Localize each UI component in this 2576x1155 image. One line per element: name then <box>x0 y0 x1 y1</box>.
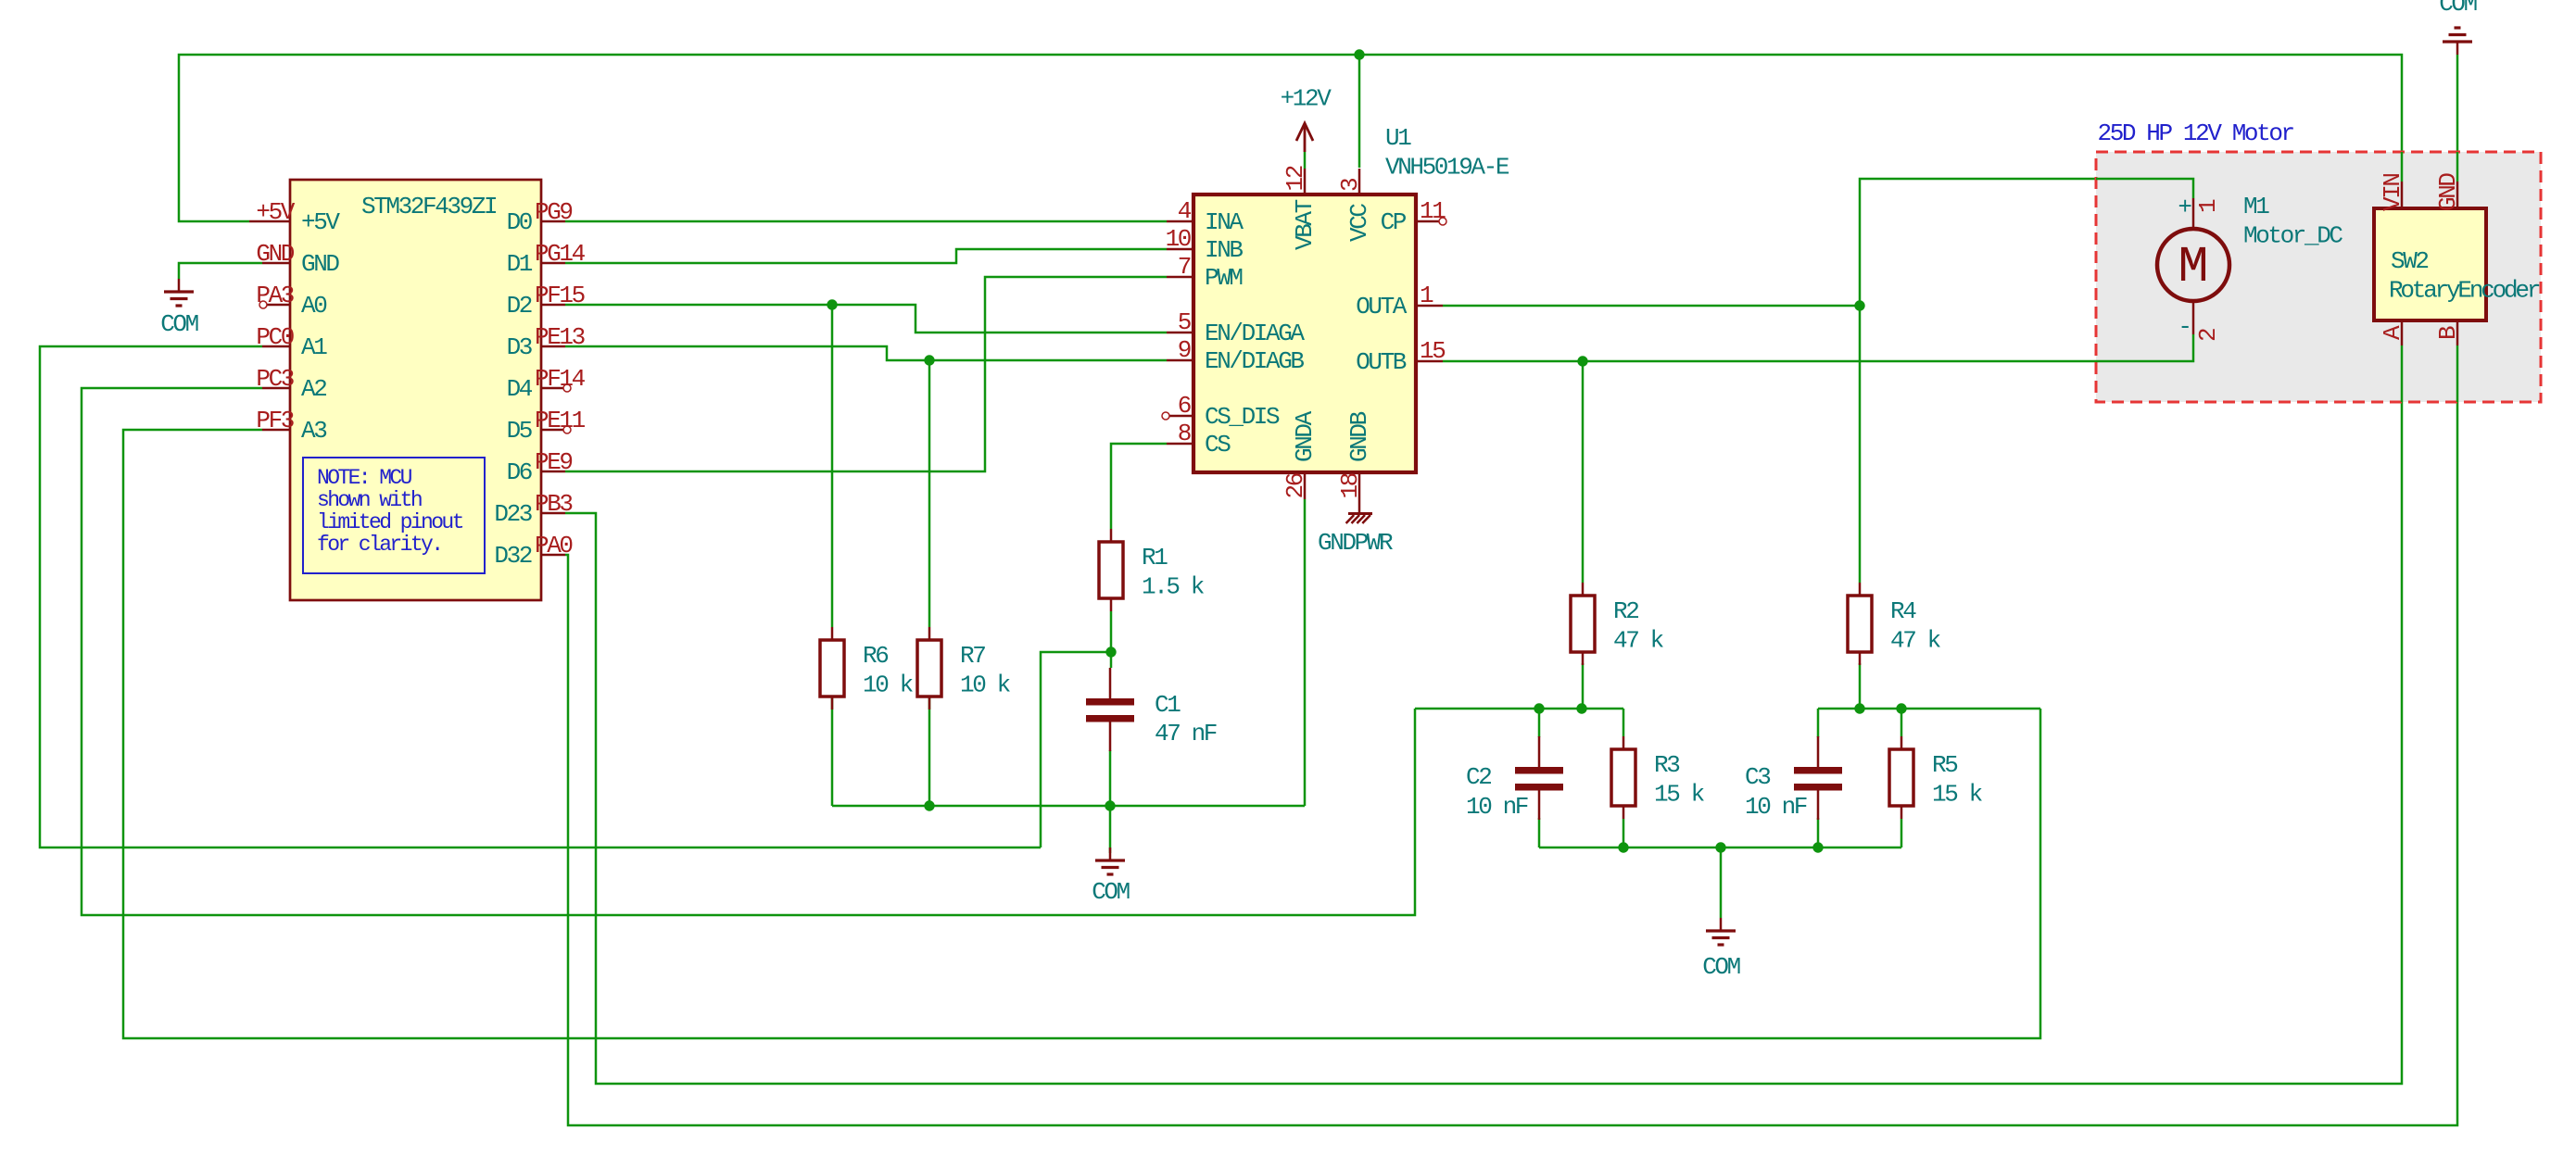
wire U1 VCC drop from +5V rail <box>1358 55 1361 168</box>
svg-text:8: 8 <box>1178 420 1191 447</box>
junction R7 / COM bus <box>924 800 934 810</box>
svg-text:A0: A0 <box>301 292 326 320</box>
svg-text:GND: GND <box>2434 173 2462 211</box>
U1 pin 7 PWM <box>1167 276 1193 279</box>
svg-text:C1: C1 <box>1155 691 1181 719</box>
svg-text:A3: A3 <box>301 417 326 445</box>
capacitor C2 10 nF <box>1515 767 1563 774</box>
U1 pin 15 OUTB <box>1416 360 1443 363</box>
SW2 pin B <box>2456 320 2459 345</box>
MCU pin D0 <box>540 220 565 223</box>
svg-text:STM32F439ZI: STM32F439ZI <box>361 193 497 220</box>
svg-text:R6: R6 <box>863 642 888 670</box>
svg-text:D3: D3 <box>507 333 532 361</box>
wire SW2 B to D32/PA0 <box>565 345 2457 1125</box>
MCU pin A3 <box>262 429 290 432</box>
wire R6 bottom to COM bus <box>831 697 834 806</box>
wire D2/PF15 to U1 EN/DIAGA <box>565 305 1167 333</box>
MCU STM32F439ZI body <box>290 180 541 600</box>
MCU pin D3 <box>540 345 565 348</box>
wire COM return under dividers <box>1539 847 1901 849</box>
svg-text:PA3: PA3 <box>256 282 293 309</box>
svg-text:COM: COM <box>2439 0 2476 18</box>
svg-text:GND: GND <box>301 250 339 278</box>
junction COM stub <box>1715 842 1725 852</box>
junction OUTA / R4 riser <box>1854 300 1864 310</box>
MCU pin D32 <box>540 554 565 557</box>
junction D2 net / R6 <box>827 299 837 309</box>
SW2 pin A <box>2401 320 2404 345</box>
svg-text:D5: D5 <box>507 417 532 445</box>
svg-text:EN/DIAGA: EN/DIAGA <box>1205 320 1305 347</box>
MCU pin A1 <box>262 345 290 348</box>
MCU pin D1 <box>540 262 565 265</box>
resistor R5 15 k <box>1889 749 1913 806</box>
op-amp U1 VNH5019A-E body <box>1193 195 1416 472</box>
svg-text:9: 9 <box>1178 336 1191 364</box>
svg-text:NOTE: MCU: NOTE: MCU <box>317 466 412 490</box>
svg-text:OUTB: OUTB <box>1356 348 1407 376</box>
junction D3 net / R7 <box>924 355 934 365</box>
wire R5 bottom <box>1900 819 1903 847</box>
junction +5V rail / VCC <box>1354 49 1364 59</box>
svg-text:1: 1 <box>1420 282 1433 309</box>
U1 pin 10 INB <box>1167 248 1193 251</box>
svg-text:47 k: 47 k <box>1890 627 1941 655</box>
svg-text:M1: M1 <box>2243 193 2269 220</box>
svg-text:CS_DIS: CS_DIS <box>1205 403 1280 431</box>
svg-text:VIN: VIN <box>2379 174 2406 211</box>
wire +5V rail from MCU +5V pin up across top to SW2 VIN <box>179 55 2402 221</box>
svg-text:D23: D23 <box>494 500 531 528</box>
wire R2 riser from OUTB <box>1582 361 1585 583</box>
wire U1 GNDA to COM bus <box>1304 499 1307 806</box>
MCU pin +5V <box>249 220 290 223</box>
resistor R6 10 k <box>820 640 844 697</box>
svg-text:PC3: PC3 <box>256 365 293 393</box>
wire OUTA up-over to motor + <box>1860 179 2193 306</box>
svg-text:VBAT: VBAT <box>1291 199 1319 250</box>
svg-text:PA0: PA0 <box>535 532 572 559</box>
svg-text:GNDPWR: GNDPWR <box>1318 529 1393 557</box>
svg-text:A1: A1 <box>301 333 327 361</box>
capacitor C3 10 nF <box>1794 767 1842 774</box>
svg-text:SW2: SW2 <box>2391 247 2428 275</box>
wire D0/PG9 to U1 INA <box>565 220 1167 223</box>
svg-text:PC0: PC0 <box>256 323 293 351</box>
resistor R2 47 k <box>1571 596 1595 652</box>
wire C3 bottom stub <box>1817 818 1820 847</box>
motor M1 Motor_DC <box>2157 229 2229 301</box>
svg-text:B: B <box>2434 326 2462 340</box>
svg-text:R7: R7 <box>960 642 985 670</box>
SW2 pin VIN <box>2401 182 2404 208</box>
MCU pin D5 <box>540 429 563 432</box>
wire R4 riser from OUTA <box>1859 306 1862 583</box>
svg-text:D4: D4 <box>507 375 533 403</box>
wire R1 bottom to node <box>1110 611 1113 668</box>
wire VBAT stub <box>1304 152 1307 169</box>
wire SW2 VIN inside group <box>2401 152 2404 182</box>
wire U1 OUTB to motor - <box>1443 334 2193 361</box>
svg-text:M: M <box>2178 238 2208 296</box>
svg-text:PF14: PF14 <box>535 365 586 393</box>
svg-text:18: 18 <box>1336 473 1364 498</box>
svg-text:1: 1 <box>2194 199 2222 213</box>
svg-text:R5: R5 <box>1932 751 1957 779</box>
svg-text:Motor_DC: Motor_DC <box>2243 222 2342 250</box>
junction C3 bottom <box>1812 842 1823 852</box>
svg-text:12: 12 <box>1282 166 1309 191</box>
wire SW2 B inside group <box>2456 345 2459 402</box>
ground COM at MCU <box>178 279 181 292</box>
svg-text:47 k: 47 k <box>1613 627 1664 655</box>
U1 pin 18 GNDB <box>1358 472 1361 513</box>
wire motor - inside group <box>2096 334 2193 361</box>
resistor R4 47 k <box>1848 596 1872 652</box>
svg-text:R1: R1 <box>1142 544 1168 571</box>
svg-text:+: + <box>2178 194 2191 221</box>
U1 pin 26 GNDA <box>1304 472 1307 499</box>
svg-text:1.5 k: 1.5 k <box>1142 573 1205 601</box>
MCU pin D2 <box>540 304 565 307</box>
svg-text:PE11: PE11 <box>535 407 586 434</box>
U1 pin 3 VCC <box>1358 169 1361 195</box>
U1 pin 6 CS_DIS <box>1169 415 1193 418</box>
svg-text:D32: D32 <box>494 542 531 570</box>
svg-text:+12V: +12V <box>1281 85 1332 113</box>
MCU pin GND <box>262 262 290 265</box>
svg-text:D0: D0 <box>507 208 532 236</box>
svg-text:PE13: PE13 <box>535 323 585 351</box>
svg-text:INB: INB <box>1205 236 1243 264</box>
rotary encoder SW2 body <box>2374 208 2486 320</box>
SW2 pin GND <box>2456 182 2459 208</box>
wire D3/PE13 to U1 EN/DIAGB <box>565 346 1167 360</box>
junction R1/C1 node <box>1105 647 1116 657</box>
svg-text:PE9: PE9 <box>535 448 572 476</box>
svg-text:3: 3 <box>1336 179 1364 192</box>
junction R2 bottom <box>1576 703 1586 713</box>
group box 25D HP 12V Motor <box>2096 152 2541 402</box>
svg-text:PB3: PB3 <box>535 490 572 518</box>
wire R3 top <box>1623 709 1625 736</box>
wire R5 top <box>1900 709 1903 736</box>
svg-text:C2: C2 <box>1466 763 1491 791</box>
svg-text:47 nF: 47 nF <box>1155 720 1217 747</box>
svg-text:C3: C3 <box>1745 763 1770 791</box>
svg-text:COM: COM <box>1702 953 1739 981</box>
svg-text:10 nF: 10 nF <box>1466 793 1528 821</box>
junction C2 top <box>1534 703 1544 713</box>
MCU pin D4 <box>540 387 563 390</box>
svg-text:GNDA: GNDA <box>1291 410 1319 462</box>
svg-text:GNDB: GNDB <box>1345 411 1373 462</box>
U1 pin 12 VBAT <box>1304 169 1307 195</box>
MCU pin A2 <box>262 387 290 390</box>
wire C1 COM ground stub <box>1109 806 1112 853</box>
svg-text:5: 5 <box>1178 308 1191 336</box>
svg-text:10 k: 10 k <box>960 672 1011 699</box>
U1 pin 9 EN/DIAGB <box>1167 359 1193 362</box>
svg-text:10 nF: 10 nF <box>1745 793 1807 821</box>
wire D6/PE9 to U1 PWM <box>565 277 1167 471</box>
MCU pin A0 <box>267 304 290 307</box>
junction R4 bottom <box>1854 703 1864 713</box>
wire R4 bottom <box>1859 663 1862 709</box>
svg-text:GND: GND <box>256 240 294 268</box>
svg-text:11: 11 <box>1420 197 1446 225</box>
M1 pin 1 + <box>2192 198 2195 229</box>
ground COM top right inverted <box>2456 42 2459 55</box>
svg-text:COM: COM <box>1092 878 1129 906</box>
svg-text:RotaryEncoder: RotaryEncoder <box>2389 277 2540 305</box>
U1 pin 4 INA <box>1167 220 1193 223</box>
svg-text:PG9: PG9 <box>535 198 572 226</box>
ground COM under dividers <box>1720 918 1723 931</box>
U1 pin 1 OUTA <box>1416 305 1443 308</box>
wire R7 bottom to COM bus <box>928 697 931 806</box>
svg-text:U1: U1 <box>1385 124 1411 152</box>
wire R7 riser to D3 net <box>928 360 931 627</box>
svg-text:CS: CS <box>1205 431 1231 458</box>
U1 pin 5 EN/DIAGA <box>1167 332 1193 334</box>
svg-text:shown with: shown with <box>317 488 422 512</box>
U1 pin 11 CP <box>1416 220 1439 223</box>
svg-text:7: 7 <box>1178 253 1191 281</box>
wire MCU A1/PC0 to current-sense node <box>40 346 1041 847</box>
wire SW2 GND to COM inverted ground <box>2456 55 2459 182</box>
wire U1 CS to R1 top <box>1111 444 1167 529</box>
wire OUTB divider node horizontal <box>1415 708 1623 710</box>
svg-text:EN/DIAGB: EN/DIAGB <box>1205 347 1304 375</box>
svg-text:+5V: +5V <box>256 198 295 226</box>
svg-text:R2: R2 <box>1613 597 1638 625</box>
svg-text:PG14: PG14 <box>535 240 586 268</box>
wire R3 bottom <box>1623 819 1625 847</box>
junction C1 / COM bus <box>1105 800 1115 810</box>
wire C2 bottom stub <box>1538 818 1541 847</box>
junction R5 top <box>1896 703 1906 713</box>
wire R6 riser to D2 net <box>831 305 834 627</box>
power ground GNDPWR symbol <box>1348 512 1372 515</box>
svg-text:PWM: PWM <box>1205 264 1242 292</box>
svg-text:R4: R4 <box>1890 597 1916 625</box>
wire COM ground stub below dividers <box>1720 847 1723 918</box>
wire C1 bottom <box>1109 750 1112 806</box>
svg-text:26: 26 <box>1282 473 1309 498</box>
svg-text:-: - <box>2178 313 2190 341</box>
svg-text:10 k: 10 k <box>863 672 914 699</box>
U1 pin 8 CS <box>1167 443 1193 446</box>
power +12V symbol <box>1304 123 1307 152</box>
junction OUTB / R2 <box>1577 356 1587 366</box>
wire COM bus <box>832 805 1305 808</box>
svg-text:limited pinout: limited pinout <box>317 510 463 534</box>
wire R2 bottom <box>1582 663 1585 709</box>
wire D1/PG14 to U1 INB <box>565 249 1167 263</box>
wire MCU GND pin to COM ground <box>179 263 262 279</box>
junction R3 bottom <box>1618 842 1628 852</box>
svg-text:D2: D2 <box>507 292 532 320</box>
svg-text:PF3: PF3 <box>256 407 293 434</box>
svg-text:A2: A2 <box>301 375 326 403</box>
svg-text:for clarity.: for clarity. <box>317 533 441 557</box>
wire MCU A3/PF3 to OUTA divider node <box>123 430 2040 1038</box>
svg-text:VCC: VCC <box>1345 204 1373 242</box>
svg-text:D6: D6 <box>507 458 532 486</box>
svg-text:25D HP 12V Motor: 25D HP 12V Motor <box>2098 119 2294 147</box>
wire R1/C1 node to A1 net riser <box>1041 652 1111 847</box>
svg-text:15: 15 <box>1420 337 1445 365</box>
wire C3 top stub <box>1817 709 1820 737</box>
wire SW2 A inside group <box>2401 345 2404 402</box>
svg-text:15 k: 15 k <box>1654 781 1705 809</box>
MCU pin D23 <box>540 512 565 515</box>
svg-text:OUTA: OUTA <box>1356 293 1408 320</box>
note box <box>303 458 485 573</box>
svg-text:10: 10 <box>1166 225 1191 253</box>
capacitor C1 47 nF <box>1086 698 1134 706</box>
resistor R3 15 k <box>1611 749 1635 806</box>
svg-text:4: 4 <box>1178 197 1192 225</box>
wire SW2 A to D23/PB3 <box>565 345 2402 1084</box>
wire U1 OUTA to motor + and R4 <box>1443 305 1860 308</box>
ground COM under C1 <box>1109 847 1112 860</box>
svg-text:2: 2 <box>2194 329 2222 342</box>
resistor R1 1.5 k <box>1099 542 1123 598</box>
resistor R7 10 k <box>917 640 941 697</box>
svg-text:D1: D1 <box>507 250 533 278</box>
svg-text:VNH5019A-E: VNH5019A-E <box>1385 154 1509 182</box>
wire OUTA divider node horizontal <box>1818 708 2040 710</box>
M1 pin 2 - <box>2192 301 2195 334</box>
wire SW2 GND inside group <box>2456 152 2459 182</box>
svg-text:R3: R3 <box>1654 751 1679 779</box>
svg-text:PF15: PF15 <box>535 282 585 309</box>
svg-text:6: 6 <box>1178 392 1191 420</box>
wire C2 top stub <box>1538 709 1541 737</box>
wire MCU A2/PC3 to OUTB divider node <box>82 388 1415 915</box>
svg-text:INA: INA <box>1205 208 1244 236</box>
svg-text:+5V: +5V <box>301 208 340 236</box>
svg-text:15 k: 15 k <box>1932 781 1983 809</box>
wire motor + inside group <box>2096 179 2193 198</box>
MCU pin D6 <box>540 471 565 473</box>
svg-text:CP: CP <box>1381 208 1407 236</box>
svg-text:COM: COM <box>160 310 197 338</box>
